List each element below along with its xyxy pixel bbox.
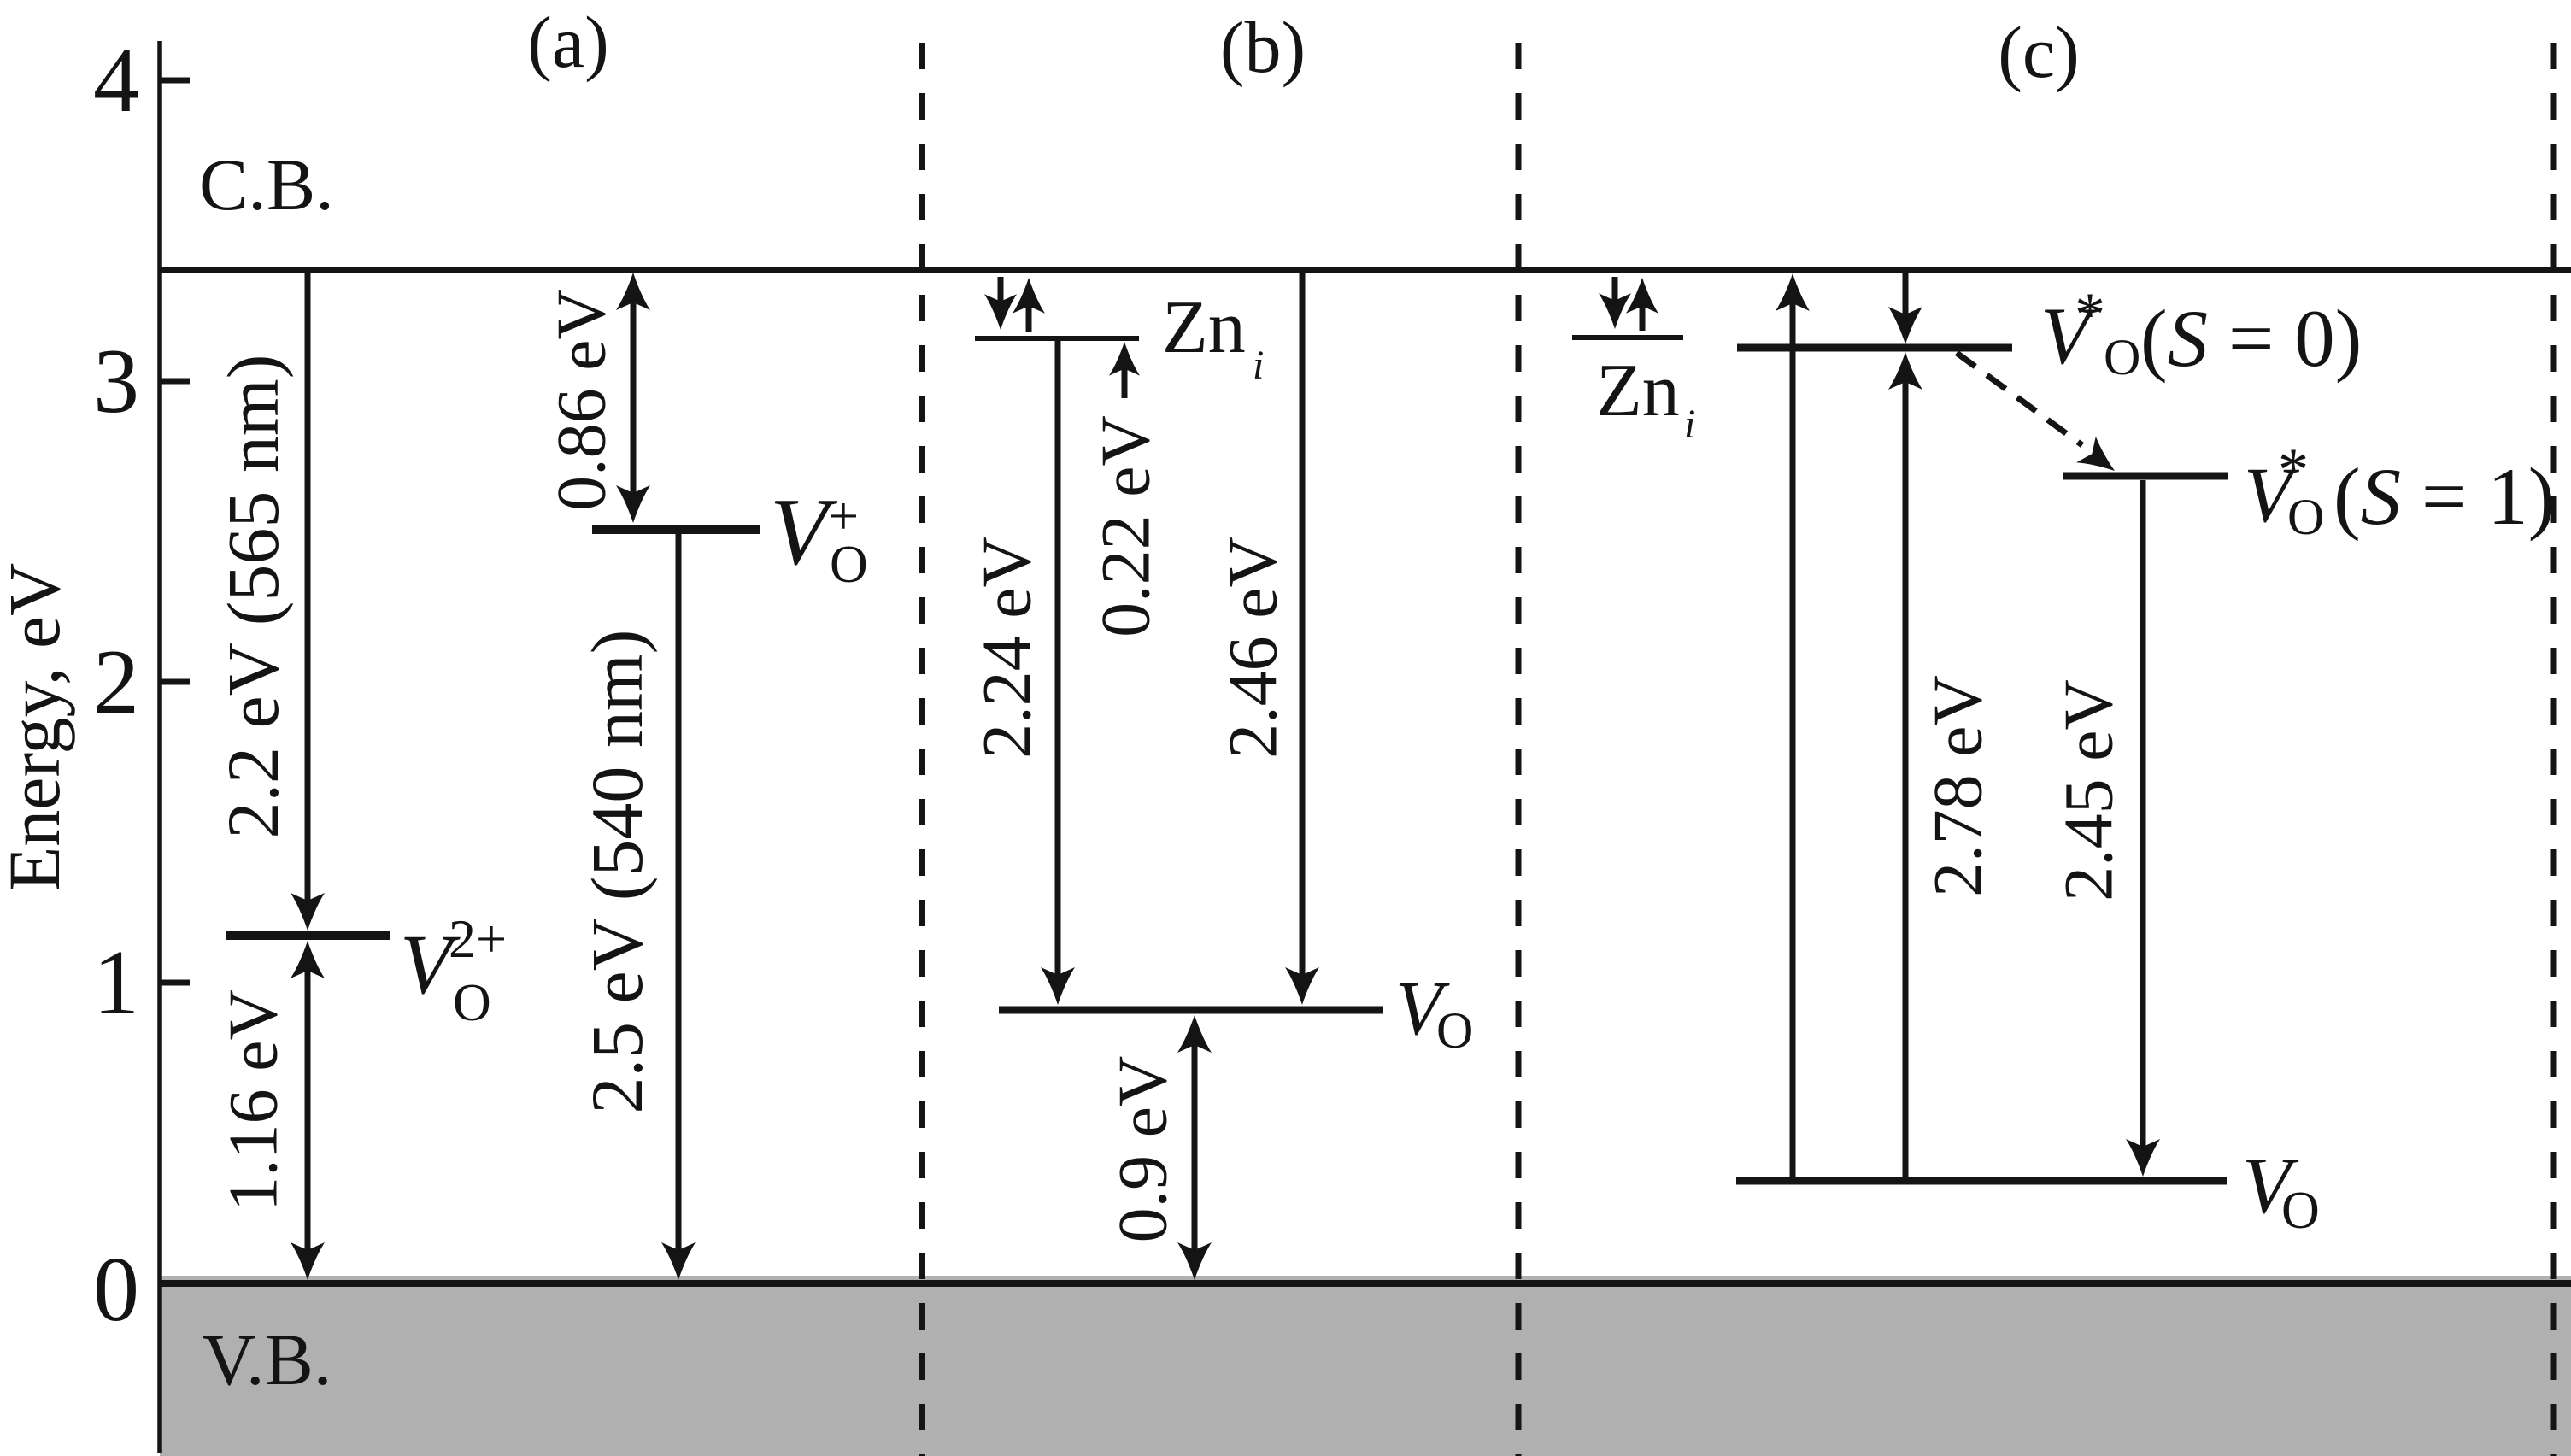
dashed relaxation arrow S=0 to S=1: [1957, 353, 2082, 445]
svg-text:0.9 eV: 0.9 eV: [1104, 1056, 1182, 1243]
svg-text:4: 4: [93, 30, 139, 132]
excitation up arrow (VO to C.B.): [1776, 273, 1810, 1178]
svg-text:i: i: [1684, 402, 1695, 447]
svg-text:2.78 eV: 2.78 eV: [1919, 675, 1997, 897]
dashed separator line 2: [1516, 43, 1522, 1456]
svg-text:(S = 0): (S = 0): [2140, 293, 2362, 384]
Zni level line (c): [1572, 335, 1683, 340]
svg-text:(a): (a): [527, 1, 608, 83]
svg-text:*: *: [2075, 280, 2105, 349]
svg-text:O: O: [1436, 1002, 1473, 1059]
0.9 eV double arrow (VO to V.B.): [1177, 1015, 1212, 1280]
svg-text:(c): (c): [1998, 11, 2079, 93]
svg-text:O: O: [830, 536, 868, 594]
svg-text:O: O: [2287, 489, 2324, 545]
y axis: [157, 41, 162, 1453]
svg-text:2.5 eV (540 nm): 2.5 eV (540 nm): [576, 630, 658, 1114]
Zni level line (b): [975, 336, 1139, 341]
1.16 eV double arrow (VO2+ to V.B.): [291, 941, 325, 1280]
2.2 eV transition arrow (C.B. to VO2+): [291, 270, 325, 931]
svg-text:0: 0: [93, 1239, 139, 1341]
svg-text:Energy, eV: Energy, eV: [0, 563, 75, 891]
svg-text:O: O: [2104, 329, 2140, 385]
VO2+ level line: [226, 931, 390, 940]
VO level line (b): [999, 1007, 1383, 1014]
svg-text:O: O: [453, 974, 491, 1032]
spin up arrow (c): [1626, 278, 1658, 331]
svg-text:i: i: [1253, 343, 1264, 388]
svg-text:1.16 eV: 1.16 eV: [214, 989, 292, 1212]
svg-text:0.86 eV: 0.86 eV: [543, 289, 620, 511]
axis ticks: [160, 78, 190, 84]
2.5 eV transition arrow (VO+ to V.B.): [661, 534, 696, 1280]
dashed separator line 3 (right edge): [2551, 43, 2557, 1456]
2.24 eV arrow (Zni to VO): [1041, 341, 1075, 1005]
svg-text:O: O: [2281, 1182, 2320, 1240]
dashed separator line 1: [919, 43, 925, 1456]
valence band V.B. gray region: [160, 1276, 2571, 1456]
spin up arrow (b): [1013, 278, 1045, 332]
spin down arrow (b): [984, 277, 1017, 330]
valence band top line (0 eV): [160, 1280, 2571, 1287]
svg-text:2.24 eV: 2.24 eV: [968, 537, 1046, 759]
svg-text:2.2 eV (565 nm): 2.2 eV (565 nm): [212, 355, 294, 839]
0.86 eV double arrow (C.B. to VO+): [616, 273, 650, 523]
svg-text:0.22 eV: 0.22 eV: [1087, 415, 1165, 637]
svg-text:2: 2: [93, 631, 139, 733]
svg-text:Zn: Zn: [1162, 286, 1246, 369]
svg-text:(S = 1): (S = 1): [2333, 451, 2555, 542]
0.22 eV small arrow (b): [1109, 342, 1140, 398]
svg-text:(b): (b): [1220, 6, 1306, 88]
conduction band C.B. line: [160, 267, 2571, 273]
VO*(S=0) level line: [1737, 344, 2012, 352]
2.46 eV arrow (C.B. to VO): [1285, 270, 1319, 1005]
svg-text:2+: 2+: [449, 908, 507, 969]
VO+ level line: [592, 525, 760, 534]
capture down arrow (C.B. to VO* S=0): [1888, 270, 1922, 344]
VO level line (c): [1736, 1177, 2227, 1185]
svg-text:V.B.: V.B.: [203, 1318, 332, 1400]
svg-text:Zn: Zn: [1596, 349, 1680, 432]
2.78 eV up arrow (VO to VO* S=0): [1888, 352, 1922, 1178]
svg-text:2.46 eV: 2.46 eV: [1214, 537, 1292, 759]
svg-text:2.45 eV: 2.45 eV: [2050, 679, 2128, 901]
svg-text:C.B.: C.B.: [199, 144, 334, 226]
svg-text:3: 3: [93, 331, 139, 432]
svg-text:1: 1: [93, 932, 139, 1034]
2.45 eV down arrow (VO* S=1 to VO): [2126, 480, 2160, 1177]
spin down arrow (c): [1599, 277, 1631, 329]
VO*(S=1) level line: [2063, 473, 2228, 480]
